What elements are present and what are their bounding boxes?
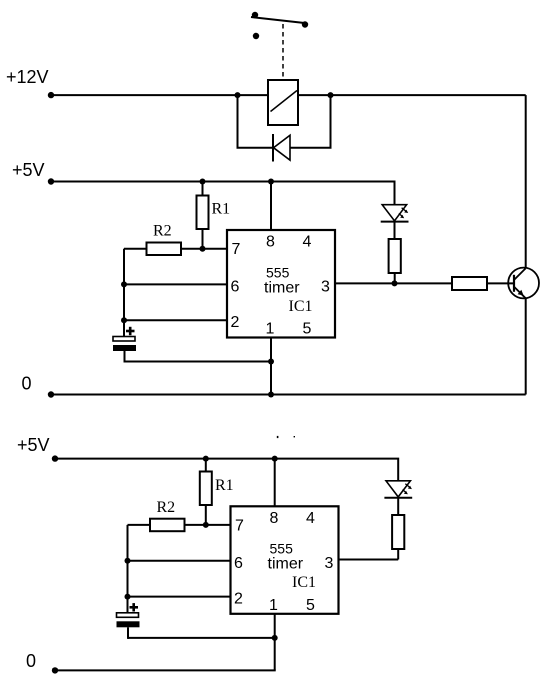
node +5V rail left terminal	[48, 178, 54, 184]
LED D2	[381, 205, 409, 222]
svg-text:IC1: IC1	[292, 574, 316, 591]
node +12V rail left terminal	[48, 92, 54, 98]
transistor Q1 NPN	[508, 268, 539, 299]
wire pin 1' vertical	[274, 614, 276, 671]
wire R1 bottom lead	[202, 229, 204, 249]
node junction relay left	[235, 92, 241, 98]
svg-text:4: 4	[306, 510, 315, 527]
svg-text:5: 5	[303, 321, 312, 338]
node junction pin2/cap	[121, 317, 127, 323]
wire emitter vertical	[525, 299, 527, 395]
wire left vertical bus	[123, 249, 125, 337]
op-amp-box IC1' 555 timer	[231, 506, 339, 614]
svg-text:555: 555	[266, 264, 290, 280]
svg-text:1: 1	[266, 321, 275, 338]
resistor R2	[147, 243, 182, 256]
wire base lead	[487, 282, 513, 284]
svg-text:R2: R2	[153, 223, 172, 240]
wire pin 1 vertical	[270, 338, 272, 395]
svg-text:+5V: +5V	[12, 160, 45, 180]
wire collector vertical	[525, 95, 527, 268]
wire LED2 cathode to resistor	[397, 498, 399, 516]
svg-text:1: 1	[269, 597, 278, 614]
wire pin 2'	[128, 596, 231, 598]
svg-text:+5V: +5V	[17, 435, 50, 455]
resistor R2'	[150, 519, 185, 532]
resistor R1'	[200, 472, 212, 506]
node junction pin6'	[125, 558, 131, 564]
LED D3	[384, 481, 412, 498]
diode D1 flyback	[273, 134, 290, 162]
wire capacitor 2 bottom to pin1'	[128, 637, 275, 639]
node junction R1/R2/pin7	[200, 246, 206, 252]
wire R1' bottom lead	[205, 505, 207, 525]
wire pin 8 vertical	[270, 182, 272, 231]
svg-text:6: 6	[231, 279, 240, 296]
wire LED cathode to resistor	[394, 222, 396, 240]
svg-text:R1: R1	[215, 477, 234, 494]
wire R2 left lead	[124, 248, 147, 250]
node junction LED resistor / pin3	[392, 280, 398, 286]
wire R3 bottom lead	[394, 273, 396, 283]
svg-text:2: 2	[234, 590, 243, 607]
svg-text:timer: timer	[264, 280, 300, 297]
capacitor C2 polarised	[117, 603, 140, 639]
node junction pin1/cap wire	[268, 359, 274, 365]
svg-text:0: 0	[22, 374, 32, 394]
node 0 rail 2 left terminal	[52, 667, 58, 673]
svg-text:0: 0	[26, 651, 36, 671]
svg-text:R1: R1	[212, 201, 231, 218]
node junction pin8	[268, 179, 274, 185]
svg-text:8: 8	[266, 234, 275, 251]
node junction pin1'/cap wire	[272, 635, 278, 641]
relay coil K1	[268, 80, 298, 125]
svg-text:timer: timer	[268, 556, 304, 573]
wire pin 7	[181, 248, 227, 250]
resistor R3' (LED series)	[392, 515, 404, 549]
svg-text:+12V: +12V	[6, 67, 49, 87]
svg-text:2: 2	[231, 314, 240, 331]
resistor R1	[197, 196, 209, 230]
svg-text:5: 5	[306, 597, 315, 614]
resistor R3 (LED series)	[389, 239, 401, 273]
wire pin 3' output	[339, 559, 399, 561]
node 0 rail left terminal	[48, 391, 54, 397]
wire dashed mechanical link	[282, 24, 284, 80]
wire pin 7'	[185, 524, 231, 526]
op-amp-box IC1 555 timer	[227, 230, 335, 338]
artifact mark 1	[277, 436, 279, 438]
node junction pin1/0 rail	[268, 392, 274, 398]
svg-text:7: 7	[235, 517, 244, 534]
wire +5V rail	[51, 182, 395, 206]
node junction pin2'/cap	[125, 594, 131, 600]
resistor R4 (base)	[452, 277, 487, 290]
wire capacitor bottom to pin1	[125, 361, 272, 363]
node junction relay right	[328, 92, 334, 98]
svg-text:IC1: IC1	[289, 298, 313, 315]
wire R3' bottom lead	[397, 549, 399, 560]
wire +12V rail	[51, 94, 526, 96]
wire R2' left lead	[128, 524, 151, 526]
wire R1 leads	[202, 182, 204, 197]
svg-text:7: 7	[232, 241, 241, 258]
svg-text:555: 555	[270, 541, 294, 557]
wire left vertical bus 2	[127, 525, 129, 613]
wire pin 3 output	[335, 282, 452, 284]
wire 0 rail	[51, 394, 526, 396]
svg-text:6: 6	[234, 555, 243, 572]
wire +5V rail 2	[55, 459, 398, 481]
node junction R1 top	[200, 179, 206, 185]
svg-text:3: 3	[325, 555, 334, 572]
wire pin 6	[124, 283, 227, 285]
node junction R1'/R2'/pin7'	[203, 522, 209, 528]
wire R1' top lead	[205, 459, 207, 472]
node junction pin8'	[272, 456, 278, 462]
capacitor C1 polarised	[113, 327, 136, 363]
wire pin 6'	[128, 560, 231, 562]
switch S1	[251, 12, 308, 39]
wire pin 8' vertical	[274, 459, 276, 507]
wire relay flyback loop	[238, 95, 331, 148]
node junction R1' top	[203, 456, 209, 462]
node junction pin6	[121, 281, 127, 287]
svg-text:4: 4	[303, 234, 312, 251]
svg-text:8: 8	[270, 510, 279, 527]
wire 0 rail 2	[55, 669, 276, 671]
wire pin 2	[124, 319, 227, 321]
artifact mark 2	[294, 436, 295, 437]
svg-text:3: 3	[321, 279, 330, 296]
node +5V2 left terminal	[52, 455, 58, 461]
svg-text:R2: R2	[157, 499, 176, 516]
